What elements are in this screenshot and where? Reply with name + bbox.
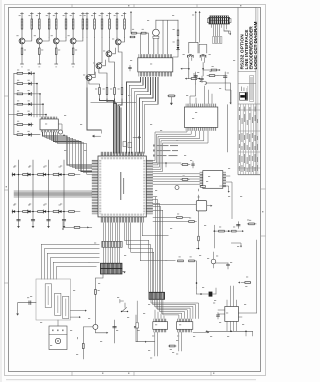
- bottom pin numbers: [100, 214, 144, 216]
- wire: [145, 77, 158, 153]
- wire: [42, 104, 44, 117]
- title text rotated: [239, 22, 259, 70]
- wire: [142, 223, 168, 236]
- wire: [103, 247, 105, 263]
- resistor network RN1: [102, 241, 122, 247]
- diode D9: [43, 210, 46, 213]
- wire: [56, 267, 96, 280]
- wire: [208, 90, 210, 104]
- wire: [173, 51, 178, 57]
- resistor R28: [191, 78, 197, 80]
- resistor R15: [99, 13, 104, 38]
- wire with resistor to bus: [62, 222, 92, 230]
- wire: [213, 24, 215, 36]
- wire: [119, 223, 121, 242]
- transistor Q12: [175, 186, 179, 190]
- component at x137 top: [136, 301, 138, 322]
- labels: [112, 38, 114, 41]
- capacitor C2: [31, 219, 34, 220]
- input arrow: [181, 68, 189, 70]
- wire loop left: [189, 42, 198, 53]
- wire: [195, 98, 197, 104]
- IC U8 body: [177, 322, 193, 330]
- chain y231: [214, 230, 243, 232]
- wire collector Q5: [116, 38, 118, 40]
- resistor R41: [168, 95, 176, 97]
- wire stub: [207, 205, 211, 207]
- resistor R8: [63, 13, 68, 38]
- resistor R26: [177, 40, 179, 46]
- buzzer box: [49, 326, 67, 350]
- wire: [153, 163, 181, 167]
- wire: [116, 223, 118, 242]
- wire: [224, 24, 229, 34]
- wire: [181, 332, 183, 351]
- junction: [165, 162, 167, 164]
- wires from QFP right pins down: [153, 196, 156, 292]
- labels: [16, 34, 18, 37]
- ground: [47, 226, 50, 228]
- diode D1: [177, 20, 180, 51]
- resistor R44: [232, 230, 237, 232]
- IC U7 body: [225, 307, 239, 322]
- row A chain: [12, 167, 80, 177]
- U5 left pins: [200, 172, 203, 188]
- vertical line 3: [48, 160, 50, 226]
- node arrow: [171, 97, 173, 105]
- crystal X1: [153, 20, 160, 54]
- transistor Q10: [211, 259, 216, 264]
- wire: [50, 258, 99, 280]
- diode D11: [209, 292, 213, 297]
- wire: [107, 99, 115, 153]
- base wire Q6: [112, 48, 116, 54]
- U1 label: [150, 63, 152, 66]
- resistor R46: [130, 36, 136, 38]
- wire collector Q6: [108, 38, 111, 51]
- transistor Q7: [96, 63, 102, 69]
- wire: [58, 132, 92, 174]
- diode D2: [12, 173, 15, 176]
- wire: [114, 223, 116, 242]
- capacitor C12: [201, 76, 204, 83]
- emitter wire: [21, 44, 23, 64]
- resistor: [38, 174, 44, 176]
- resistor R38: [82, 344, 84, 349]
- wire: [127, 77, 141, 153]
- wire: [45, 115, 47, 118]
- resistor R9: [55, 48, 57, 55]
- resistor R10: [70, 13, 75, 38]
- wire: [137, 77, 151, 153]
- svg-text:LINE INTERFACE: LINE INTERFACE: [244, 29, 250, 70]
- ground: [17, 226, 20, 228]
- zone ticks top: [4, 4, 265, 376]
- resistor: [53, 211, 59, 213]
- wire: [39, 94, 41, 117]
- wire: [226, 24, 228, 29]
- wire: [138, 33, 141, 54]
- resistor R3: [21, 48, 23, 55]
- capacitor C4: [62, 219, 65, 220]
- wire: [119, 107, 121, 154]
- resistor R11: [80, 13, 85, 38]
- wire right long: [237, 312, 239, 314]
- wire: [89, 81, 100, 86]
- wire: [132, 77, 146, 153]
- capacitor C8: [27, 297, 31, 304]
- ground: [123, 272, 126, 274]
- left pin numbers: [99, 159, 101, 214]
- resistor: [69, 174, 75, 176]
- resistor R17: [114, 13, 119, 38]
- long wire right: [140, 223, 175, 261]
- capacitor C17: [129, 65, 132, 71]
- wire: [47, 253, 99, 279]
- ground: [16, 314, 19, 316]
- capacitor C8 and ground: [16, 297, 36, 315]
- stage Q1: [16, 13, 33, 68]
- coil L1: [183, 54, 194, 63]
- wire: [107, 223, 109, 242]
- transistor Q9: [58, 130, 62, 134]
- wire: [154, 332, 156, 356]
- U7 side pins: [218, 310, 257, 317]
- resistor R36: [219, 230, 225, 232]
- wire: [157, 332, 159, 356]
- pin wires: [212, 24, 229, 36]
- wire top rail: [156, 20, 178, 54]
- U3 label: [195, 111, 197, 114]
- wire: [204, 86, 206, 104]
- diode row 5: [9, 111, 47, 116]
- bracket: [120, 299, 124, 303]
- capacitor C1: [17, 219, 20, 220]
- wire: [226, 182, 232, 219]
- wires from U3 top: [190, 72, 231, 104]
- resistor R42: [178, 256, 184, 261]
- wire: [219, 24, 221, 36]
- outer border: [5, 5, 266, 376]
- wire: [130, 13, 132, 34]
- wires RN1 to connector: [104, 247, 120, 263]
- wire: [153, 183, 200, 185]
- box outline: [36, 279, 70, 320]
- resistor R21: [110, 85, 115, 99]
- wire: [115, 99, 117, 153]
- row B chain: [12, 205, 80, 214]
- wire: [198, 189, 200, 201]
- diode D8: [28, 210, 31, 213]
- IC U2: [40, 119, 58, 130]
- wire collector Q8: [89, 38, 95, 75]
- diode D3: [28, 174, 30, 176]
- wire feeds: [196, 42, 200, 44]
- wire: [49, 132, 92, 169]
- diagonal transistor group: [83, 13, 126, 100]
- resistor R1: [19, 13, 24, 38]
- wire: [14, 192, 92, 194]
- rail: [13, 73, 15, 134]
- wire: [140, 77, 154, 153]
- module M2: [55, 293, 61, 315]
- table columns: [238, 104, 260, 175]
- svg-text:LOGIC CCT DIAGRAM: LOGIC CCT DIAGRAM: [253, 22, 259, 70]
- wire: [112, 223, 114, 242]
- vertical rail: [226, 105, 228, 152]
- resistor R35: [198, 236, 200, 241]
- resistor R18: [121, 13, 126, 38]
- wire to IC1: [155, 310, 164, 319]
- wire: [199, 13, 201, 43]
- wire: [134, 77, 148, 153]
- resistor R39: [168, 345, 176, 350]
- diode row 4: [14, 100, 44, 105]
- wire: [153, 175, 200, 177]
- wire: [118, 45, 122, 85]
- resistor R31: [181, 175, 190, 180]
- wire: [246, 331, 253, 336]
- wire: [163, 299, 179, 318]
- fan wires: [151, 299, 199, 318]
- U7 bottom pins: [227, 321, 237, 331]
- company box: [250, 76, 254, 102]
- resistor: [53, 174, 59, 176]
- IC centre label: [120, 172, 124, 200]
- wire: [47, 132, 92, 167]
- U5 right pins: [223, 172, 226, 188]
- wire: [45, 132, 92, 166]
- wire: [118, 99, 122, 153]
- capacitor C3: [47, 219, 50, 220]
- top pin numbers: [100, 157, 144, 159]
- resistor R32: [247, 220, 256, 225]
- wires QFP to U5: [153, 174, 232, 219]
- diode row 3: [14, 90, 41, 95]
- capacitor C7: [237, 222, 240, 229]
- wire from connector: [95, 274, 103, 324]
- module M1: [45, 284, 51, 308]
- resistor R12: [72, 48, 74, 55]
- resistor R45: [189, 218, 195, 223]
- capacitor C6: [224, 72, 229, 83]
- chain at y78.6: [186, 78, 200, 80]
- wires from 20pin IC down to QFP top right: [127, 77, 159, 153]
- IC U3 body: [184, 107, 217, 127]
- wire: [151, 299, 199, 318]
- inductor wiggle: [199, 79, 206, 85]
- IC U4 body: [98, 156, 146, 217]
- wire to ICs: [136, 341, 155, 343]
- resistor: [69, 211, 75, 213]
- resistor R13: [84, 13, 89, 38]
- resistor R7: [53, 13, 58, 38]
- net label flags: [213, 37, 215, 44]
- wire: [14, 190, 92, 192]
- vertical line 1: [18, 160, 20, 226]
- resistor: [38, 211, 44, 213]
- wire: [44, 249, 99, 280]
- wire: [195, 13, 197, 43]
- right pin numbers: [143, 159, 145, 214]
- U2 bottom pin hatch: [41, 130, 58, 132]
- buzzer LS1: [55, 338, 60, 343]
- capacitor C11: [216, 313, 219, 320]
- wires below: [155, 332, 208, 356]
- wire: [57, 320, 59, 326]
- wire: [93, 135, 101, 137]
- transistor Q6: [106, 51, 112, 57]
- U1 top pin hatch: [139, 54, 172, 58]
- wire: [153, 131, 208, 172]
- capacitor C15: [192, 162, 195, 169]
- wire: [100, 99, 114, 153]
- wire: [14, 194, 92, 196]
- wire: [189, 63, 203, 79]
- capacitor C9: [113, 320, 118, 343]
- ground: [63, 226, 66, 228]
- bottom pin stubs: [100, 217, 144, 223]
- diode D4: [28, 173, 31, 176]
- U7 top pins: [218, 286, 257, 331]
- capacitor C16: [215, 263, 320, 382]
- wire: [226, 175, 230, 177]
- IC U5 body: [203, 171, 223, 189]
- IC U6 body: [153, 322, 168, 330]
- connector block: [149, 292, 165, 299]
- wire to right: [206, 83, 231, 103]
- base wire Q8: [92, 72, 95, 78]
- U3 top pins: [185, 104, 216, 107]
- resistor R24: [140, 29, 147, 34]
- transistor Q4: [70, 38, 76, 44]
- IC U1: [138, 58, 173, 72]
- base wire: [83, 327, 93, 359]
- transistor Q5: [115, 39, 121, 45]
- wire: [153, 299, 196, 318]
- resistor R20: [103, 85, 108, 99]
- wire: [14, 195, 92, 197]
- wire: [153, 131, 200, 167]
- bus: [206, 330, 252, 332]
- wire: [161, 299, 182, 318]
- emitter wire arrow: [95, 329, 106, 332]
- wire: [109, 57, 115, 85]
- junction A: [188, 68, 190, 70]
- wire: [58, 124, 62, 130]
- stub arrows right: [70, 311, 85, 318]
- resistor R27: [211, 66, 219, 71]
- U2 fan to QFP left: [43, 132, 92, 174]
- svg-text:RS232 OPTION: RS232 OPTION: [239, 34, 245, 70]
- vertical line 2: [32, 160, 34, 226]
- wire: [21, 37, 23, 40]
- transistor Q3: [53, 38, 59, 44]
- title block outline: [237, 7, 239, 175]
- vertical long right: [256, 240, 258, 313]
- U3 bottom fan to QFP right: [153, 131, 208, 172]
- wire down from chain R13: [86, 38, 88, 89]
- wire: [133, 137, 141, 139]
- resistor R37: [95, 290, 97, 295]
- resistor R5: [46, 13, 51, 38]
- resistor R29: [207, 71, 218, 76]
- diode D10: [59, 210, 62, 213]
- logo: [240, 87, 248, 101]
- capacitor C5: [194, 72, 199, 84]
- wire: [193, 331, 208, 333]
- resistor R4: [36, 13, 41, 38]
- inner frame: [9, 8, 261, 372]
- stage Q2: [34, 13, 51, 68]
- connector J2: [101, 263, 126, 274]
- top pin stubs: [100, 152, 144, 156]
- wire: [14, 196, 92, 198]
- wire: [217, 24, 219, 36]
- resistor R33: [177, 214, 183, 219]
- left pin stubs: [92, 159, 98, 214]
- wire: [87, 88, 101, 133]
- bracket wire with arrow: [224, 31, 230, 34]
- wire: [153, 131, 196, 165]
- vertical line 4: [63, 160, 65, 226]
- resistor R25: [177, 30, 179, 36]
- wire: [197, 288, 217, 294]
- TP list: [153, 145, 155, 147]
- wire: [194, 261, 196, 288]
- wire: [99, 69, 107, 85]
- wire: [142, 77, 155, 153]
- wire: [153, 173, 200, 175]
- wire: [36, 84, 38, 117]
- wire: [196, 211, 198, 249]
- switch SW1: [122, 303, 128, 312]
- labels below: [152, 335, 154, 338]
- wire: [103, 223, 105, 242]
- diode row 1: [14, 70, 35, 75]
- relay box K1: [196, 201, 206, 211]
- capacitor C13: [123, 142, 127, 147]
- junction B: [202, 68, 204, 70]
- wire: [153, 131, 204, 170]
- wire collector Q7: [99, 38, 102, 63]
- node labels: [14, 165, 16, 168]
- bracket arrow: [231, 243, 241, 246]
- diode D5: [43, 173, 46, 176]
- capacitor C10: [134, 315, 139, 342]
- wire: [212, 72, 225, 104]
- wire: [129, 77, 143, 153]
- resistor R22: [118, 85, 123, 99]
- resistor R14: [91, 13, 96, 38]
- wire: [14, 191, 92, 193]
- wire: [120, 108, 122, 153]
- resistor R43: [189, 256, 195, 261]
- module M3: [63, 296, 69, 318]
- transistor Q2: [36, 38, 42, 44]
- wire: [153, 217, 190, 219]
- capacitor C14: [128, 143, 132, 148]
- U1 bottom pin hatch: [139, 72, 172, 77]
- diode row 2: [14, 80, 38, 85]
- ground: [32, 226, 35, 228]
- top-left transistor stages: [16, 13, 84, 68]
- wire group right: [124, 223, 149, 293]
- resistor R34: [200, 186, 205, 188]
- wire: [156, 299, 190, 318]
- diode D6: [59, 173, 62, 176]
- wire: [54, 132, 92, 171]
